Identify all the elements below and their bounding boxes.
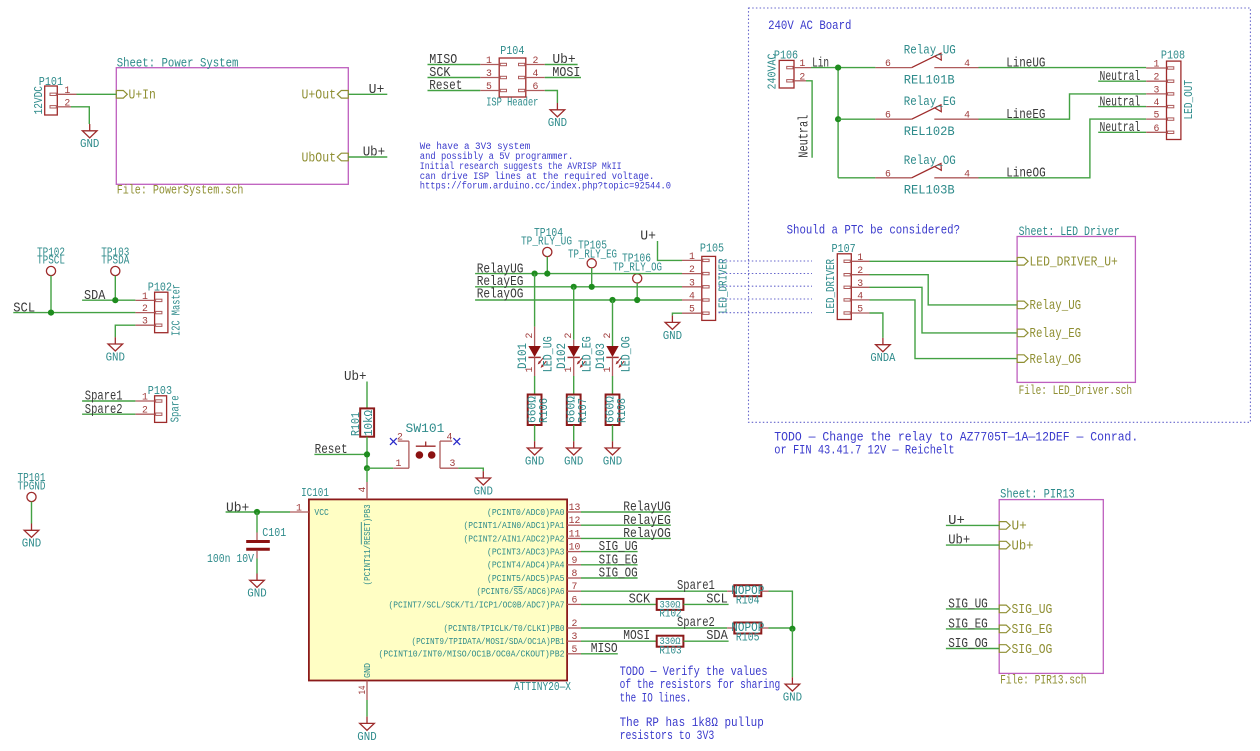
- svg-text:R105: R105: [736, 630, 760, 644]
- P103 pin 2: [135, 405, 154, 416]
- svg-text:2: 2: [524, 333, 535, 339]
- wire TP106 drop: [636, 283, 638, 300]
- wire Neutral vertical wire: [806, 81, 812, 158]
- svg-text:240VAC: 240VAC: [766, 53, 779, 89]
- wire IC pin14 to GND: [366, 700, 368, 717]
- svg-text:Neutral: Neutral: [1100, 94, 1141, 110]
- IC101 pin 12 PA1: [464, 515, 582, 531]
- diode D101: [528, 327, 546, 376]
- P105 reference: [700, 242, 724, 255]
- sheet Power System: [116, 68, 348, 185]
- svg-text:D102: D102: [555, 343, 569, 369]
- svg-text:GNDA: GNDA: [870, 352, 895, 365]
- label LineOG: [1006, 166, 1045, 182]
- ground GND below IC101: [357, 717, 376, 744]
- svg-text:Relay_UG: Relay_UG: [1030, 298, 1082, 314]
- sheet pin U+ PIR13: [999, 520, 1027, 535]
- REL101B reference: [904, 73, 955, 88]
- svg-text:(PCINT9/TPIDATA/MOSI/SDA/OC1A): (PCINT9/TPIDATA/MOSI/SDA/OC1A)PB1: [412, 636, 565, 647]
- wire UbOut to Ub+ label: [348, 156, 387, 158]
- text Should a PTC be considered?: [787, 224, 960, 238]
- label RelayOG at P105: [477, 287, 524, 303]
- P104 pin 3: [480, 68, 499, 79]
- svg-text:IC101: IC101: [301, 487, 329, 500]
- text TODO verify resistors: [620, 665, 781, 706]
- svg-text:resistors to 3V3: resistors to 3V3: [620, 729, 715, 743]
- svg-text:6: 6: [885, 58, 891, 69]
- svg-text:D103: D103: [594, 343, 608, 369]
- R105 value NOPOP: [731, 621, 764, 635]
- R106 value 660: [525, 396, 539, 423]
- sheet pin U+In: [116, 89, 156, 104]
- connector P103: [155, 396, 167, 423]
- svg-text:10: 10: [569, 542, 581, 553]
- label LineUG: [1006, 55, 1045, 71]
- svg-text:Ub+: Ub+: [226, 500, 249, 516]
- relay REL102B: [875, 105, 978, 121]
- wire P101 pin1 to U+In: [77, 93, 117, 95]
- sheet file PowerSystem.sch: [117, 183, 244, 197]
- P101 value 12VDC: [33, 86, 46, 115]
- D101 pin 1: [524, 367, 535, 373]
- REL102B value Relay_EG: [904, 94, 956, 109]
- wire Spare2 wire: [581, 627, 727, 629]
- svg-text:(PCINT11/RESET)PB3: (PCINT11/RESET)PB3: [362, 504, 373, 585]
- svg-text:TP_RLY_OG: TP_RLY_OG: [613, 261, 662, 274]
- svg-text:GND: GND: [247, 588, 266, 601]
- P106 value 240VAC: [766, 53, 779, 89]
- svg-text:GND: GND: [564, 455, 583, 468]
- ground GNDA below P107: [870, 338, 895, 365]
- svg-text:2: 2: [142, 303, 148, 314]
- ground GND below R107: [564, 441, 583, 468]
- svg-text:R107: R107: [576, 398, 590, 423]
- label SIG_OG at IC: [599, 567, 638, 582]
- svg-text:MISO: MISO: [591, 642, 618, 657]
- wire TP105 drop: [591, 268, 593, 287]
- svg-text:1: 1: [799, 58, 805, 69]
- R105 reference: [736, 630, 760, 644]
- testpoint TP104: [521, 227, 572, 256]
- IC101 pin 14 bottom: [357, 681, 368, 701]
- svg-text:SIG_OG: SIG_OG: [948, 637, 988, 652]
- svg-text:Relay_EG: Relay_EG: [904, 94, 956, 109]
- P102 pin 2: [135, 303, 154, 314]
- junction node reset label: [364, 451, 370, 457]
- label RelayEG at P105: [477, 274, 524, 290]
- IC101 pin 9 PA4: [487, 555, 581, 571]
- resistor R108: [606, 395, 620, 426]
- wire D103 anode wire: [612, 300, 614, 353]
- ground GND below P101: [80, 124, 99, 151]
- svg-text:(PCINT10/INT0/MISO/OC1B/OC0A/C: (PCINT10/INT0/MISO/OC1B/OC0A/CKOUT)PB2: [379, 649, 565, 660]
- C101 value 100n 10V: [207, 553, 254, 566]
- ground GND below TP101: [22, 524, 41, 551]
- label RelayOG at IC: [623, 526, 671, 542]
- svg-text:SCL: SCL: [13, 301, 35, 316]
- svg-text:https://forum.arduino.cc/index: https://forum.arduino.cc/index.php?topic…: [420, 181, 671, 192]
- junction node reset sw: [364, 465, 370, 471]
- diode D103: [606, 346, 624, 376]
- svg-text:P105: P105: [700, 242, 724, 255]
- svg-text:Neutral: Neutral: [1100, 69, 1141, 85]
- svg-text:2: 2: [572, 618, 578, 629]
- P108 value LED_OUT: [1183, 80, 1196, 120]
- label SCK: [429, 66, 451, 81]
- wire P107 pin3 to Relay_EG: [870, 287, 1018, 333]
- svg-text:13: 13: [569, 502, 581, 513]
- sheet pin UbOut: [302, 150, 349, 166]
- junction node D102 tap: [571, 284, 577, 290]
- sheet file PIR13.sch: [1000, 674, 1086, 688]
- diode D102: [568, 340, 586, 376]
- wire Ub+ wire at P104: [545, 64, 578, 66]
- label MOSI at IC: [623, 629, 650, 644]
- svg-text:or FIN 43.41.7 12V — Reichelt: or FIN 43.41.7 12V — Reichelt: [774, 443, 954, 457]
- R103 value 330: [660, 636, 681, 647]
- wire reset node to IC pin4: [366, 468, 368, 482]
- SW101 pin 2: [397, 432, 409, 443]
- svg-text:TPGND: TPGND: [18, 480, 46, 493]
- svg-text:TODO — Verify the values: TODO — Verify the values: [620, 665, 768, 679]
- svg-text:of the resistors for sharing: of the resistors for sharing: [620, 678, 781, 692]
- svg-text:12VDC: 12VDC: [33, 86, 46, 115]
- svg-text:Relay_OG: Relay_OG: [904, 153, 956, 168]
- svg-text:3: 3: [857, 278, 863, 289]
- ground GND below SW101: [474, 471, 493, 498]
- wire C101 to GND wire: [256, 559, 258, 574]
- wire Reset wire: [314, 453, 367, 455]
- svg-text:Reset: Reset: [429, 79, 462, 94]
- resistor R103: [657, 636, 684, 647]
- IC101 pin 11 PA2: [464, 528, 582, 544]
- wire Lin wire: [811, 67, 875, 69]
- note 3V3 system: [420, 141, 671, 191]
- no-connect X on SW101 pin 2: [390, 438, 397, 445]
- svg-text:(PCINT0/ADC0)PA0: (PCINT0/ADC0)PA0: [487, 507, 565, 518]
- svg-text:(PCINT4/ADC4)PA4: (PCINT4/ADC4)PA4: [487, 560, 565, 571]
- D103 pin 2: [602, 333, 613, 339]
- svg-text:5: 5: [1153, 110, 1159, 121]
- label U+ at P105: [640, 230, 656, 245]
- wire SIG_OG wire at IC: [581, 577, 638, 579]
- wire R108 to GND wire: [612, 425, 614, 441]
- sheet pin Relay_OG: [1017, 352, 1081, 368]
- svg-text:3: 3: [1153, 84, 1159, 95]
- P107 value LED_DRIVER: [825, 259, 838, 314]
- resistor R101: [360, 408, 374, 436]
- overline on SS of PA6: [514, 586, 523, 588]
- svg-text:Ub+: Ub+: [363, 145, 386, 161]
- svg-text:GND: GND: [548, 117, 567, 130]
- svg-text:4: 4: [857, 290, 863, 301]
- svg-text:1: 1: [689, 251, 695, 262]
- REL103B reference: [904, 183, 955, 198]
- svg-text:(PCINT2/AIN1/ADC2)PA2: (PCINT2/AIN1/ADC2)PA2: [464, 533, 565, 544]
- svg-text:U+Out: U+Out: [302, 89, 337, 104]
- svg-text:4: 4: [689, 291, 695, 302]
- wire LineEG wire: [979, 94, 1147, 119]
- connector P106: [779, 60, 794, 88]
- P108 pin 5: [1146, 110, 1166, 121]
- label SIG_EG at PIR13: [948, 618, 988, 633]
- svg-text:2: 2: [857, 265, 863, 276]
- label SCL at IC: [706, 592, 728, 607]
- D103 value LED_OG: [619, 336, 633, 372]
- svg-text:(PCINT8/TPICLK/T0/CLKI)PB0: (PCINT8/TPICLK/T0/CLKI)PB0: [444, 623, 565, 634]
- P105 pin 3: [682, 277, 702, 288]
- testpoint TP102: [37, 246, 65, 275]
- svg-text:3: 3: [142, 316, 148, 327]
- svg-text:100n 10V: 100n 10V: [207, 553, 254, 566]
- sheet PIR13: [999, 500, 1103, 674]
- svg-text:SIG_EG: SIG_EG: [1012, 623, 1053, 638]
- wire TP101 to GND: [31, 502, 33, 524]
- wire Neutral wire pin2: [1098, 80, 1146, 82]
- svg-text:2: 2: [397, 432, 403, 443]
- SW101 pin 4: [440, 432, 453, 443]
- svg-text:D101: D101: [516, 343, 530, 369]
- svg-text:5: 5: [486, 81, 492, 92]
- sheet name PIR13: [1000, 488, 1075, 502]
- P108 pin 1: [1146, 59, 1166, 70]
- svg-text:2: 2: [563, 333, 574, 339]
- connector P102: [155, 292, 168, 333]
- P102 pin 1: [135, 291, 154, 302]
- svg-text:Sheet: PIR13: Sheet: PIR13: [1000, 488, 1075, 502]
- label Neutral pin6: [1100, 120, 1141, 136]
- label Ub+ above R101: [344, 369, 367, 385]
- svg-text:Spare2: Spare2: [85, 403, 123, 418]
- label SDA at IC: [706, 629, 728, 644]
- svg-text:1: 1: [142, 291, 148, 302]
- svg-text:SCL: SCL: [706, 592, 728, 607]
- label Reset: [315, 443, 348, 458]
- wire RelayEG wire at IC: [581, 524, 671, 526]
- junction node D101 tap: [532, 271, 538, 277]
- svg-text:14: 14: [357, 685, 368, 694]
- wire row3 wire to relay3: [838, 177, 875, 179]
- svg-text:the IO lines.: the IO lines.: [620, 691, 692, 705]
- wire P107 pin4 to Relay_OG: [870, 300, 1018, 359]
- IC101 reference: [301, 487, 329, 500]
- D102 pin 2: [563, 333, 574, 339]
- P103 pin 1: [135, 392, 154, 403]
- svg-text:Neutral: Neutral: [1100, 120, 1141, 136]
- svg-text:SIG_EG: SIG_EG: [948, 618, 988, 633]
- P104 pin 1: [480, 55, 499, 66]
- R102 value 330: [660, 599, 681, 610]
- P105 pin 4: [682, 291, 702, 302]
- P104 pin 2: [526, 55, 545, 66]
- P108 pin 4: [1146, 97, 1166, 108]
- P101 pin 2: [57, 97, 71, 108]
- wire relay bus down: [837, 68, 839, 178]
- text 240V AC Board: [768, 18, 851, 33]
- D102 pin 1: [563, 367, 574, 373]
- svg-text:LED_DRIVER_U+: LED_DRIVER_U+: [1030, 256, 1118, 271]
- svg-text:R104: R104: [736, 594, 760, 608]
- svg-text:P104: P104: [500, 45, 524, 58]
- junction node SDA-TP103: [112, 297, 118, 303]
- P106 reference: [774, 50, 798, 63]
- ground GND below R108: [603, 441, 622, 468]
- svg-text:SW101: SW101: [406, 421, 445, 436]
- text RP pullup: [620, 716, 764, 743]
- svg-text:GND: GND: [106, 351, 125, 364]
- svg-text:5: 5: [572, 644, 578, 655]
- label SIG_EG at IC: [599, 553, 638, 568]
- svg-text:LED_DRIVER: LED_DRIVER: [825, 259, 838, 314]
- svg-text:11: 11: [569, 528, 581, 539]
- P108 pin 3: [1146, 84, 1166, 95]
- svg-text:Reset: Reset: [315, 443, 348, 458]
- svg-text:MOSI: MOSI: [552, 66, 580, 81]
- svg-text:TPSCL: TPSCL: [37, 255, 65, 268]
- overline on RESET of PB3: [360, 522, 362, 545]
- wire Ub+ to R101: [366, 382, 368, 409]
- svg-text:1: 1: [1153, 59, 1159, 70]
- svg-text:Spare: Spare: [169, 395, 182, 422]
- svg-text:RelayOG: RelayOG: [477, 287, 524, 303]
- R101 value 10k: [362, 410, 376, 436]
- D101 reference: [516, 343, 530, 369]
- svg-text:6: 6: [572, 594, 578, 605]
- wire SCL wire: [13, 312, 135, 314]
- svg-text:Neutral: Neutral: [796, 115, 812, 158]
- svg-text:TP_RLY_EG: TP_RLY_EG: [568, 249, 617, 262]
- svg-text:LED_UG: LED_UG: [542, 336, 556, 372]
- svg-text:10kΩ: 10kΩ: [362, 410, 376, 436]
- svg-text:4: 4: [964, 110, 970, 121]
- R103 reference: [659, 646, 681, 658]
- wire P105 pin5 to GND: [672, 313, 682, 315]
- P107 pin 1: [851, 252, 869, 263]
- svg-text:REL102B: REL102B: [904, 124, 955, 139]
- SW101 pin 1: [393, 441, 409, 469]
- svg-text:3: 3: [572, 631, 578, 642]
- svg-text:VCC: VCC: [314, 507, 329, 518]
- svg-text:8: 8: [572, 568, 578, 579]
- svg-text:P107: P107: [832, 243, 856, 256]
- svg-text:GND: GND: [663, 330, 682, 343]
- wire Spare1 wire: [581, 590, 727, 592]
- wire sw pin3 to GND: [458, 468, 483, 471]
- svg-text:U+: U+: [948, 514, 965, 529]
- D103 pin 1: [602, 367, 613, 373]
- svg-text:Ub+: Ub+: [948, 533, 970, 549]
- svg-text:LineEG: LineEG: [1006, 107, 1045, 123]
- P106 pin 2: [794, 71, 806, 82]
- wire P107 pin5 to GNDA: [870, 313, 883, 338]
- svg-text:3: 3: [689, 277, 695, 288]
- svg-text:6: 6: [1153, 123, 1159, 134]
- wire MISO wire at IC: [581, 653, 618, 655]
- junction node TP106 tap: [634, 297, 640, 303]
- P101 reference: [39, 76, 63, 89]
- svg-text:3: 3: [486, 68, 492, 79]
- P108 pin 6: [1146, 123, 1166, 134]
- R108 reference: [615, 398, 629, 423]
- svg-text:5: 5: [689, 304, 695, 315]
- svg-text:(PCINT7/SCL/SCK/T1/ICP1/OC0B/A: (PCINT7/SCL/SCK/T1/ICP1/OC0B/ADC7)PA7: [389, 599, 565, 610]
- svg-text:5: 5: [857, 304, 863, 315]
- svg-text:SDA: SDA: [84, 289, 106, 304]
- wire Neutral wire pin6: [1098, 131, 1146, 133]
- wire SIG_UG wire at PIR13: [946, 608, 999, 610]
- svg-text:240V AC Board: 240V AC Board: [768, 18, 851, 33]
- svg-text:I2C Master: I2C Master: [171, 284, 184, 336]
- testpoint TP101: [18, 472, 46, 502]
- SW101 pin 3: [440, 441, 458, 469]
- ground GND below P105: [663, 316, 682, 343]
- wire D101 cathode wire: [534, 376, 536, 395]
- P101 pin 1: [57, 85, 76, 96]
- svg-text:TP_RLY_UG: TP_RLY_UG: [521, 236, 572, 249]
- wire P107 pin2 to Relay_UG: [870, 275, 1018, 305]
- IC101 pin 7 PA6: [477, 581, 582, 597]
- wire R107 to GND wire: [573, 425, 575, 441]
- IC101 pin name VCC: [314, 507, 329, 518]
- P102 reference: [148, 282, 172, 295]
- R104 value NOPOP: [731, 584, 764, 598]
- wire D102 cathode wire: [573, 376, 575, 395]
- svg-text:LED_OUT: LED_OUT: [1183, 80, 1196, 120]
- sheet pin U+Out: [302, 89, 349, 104]
- D103 reference: [594, 343, 608, 369]
- label SIG_OG at PIR13: [948, 637, 988, 652]
- wire D103 cathode wire: [612, 376, 614, 395]
- resistor R106: [528, 395, 542, 426]
- P103 reference: [148, 385, 172, 398]
- sheet pin SIG_EG PIR13: [999, 623, 1052, 638]
- label Neutral pin2: [1100, 69, 1141, 85]
- ground GND below R106: [525, 441, 544, 468]
- svg-text:(PCINT3/ADC3)PA3: (PCINT3/ADC3)PA3: [487, 547, 565, 558]
- text TODO change relay: [774, 430, 1138, 457]
- sheet name LED Driver: [1019, 225, 1120, 239]
- svg-text:2: 2: [64, 97, 70, 108]
- svg-text:(PCINT5/ADC5)PA5: (PCINT5/ADC5)PA5: [487, 573, 565, 584]
- IC101 pin 5 PB2: [379, 644, 582, 660]
- svg-text:ISP Header: ISP Header: [486, 96, 538, 109]
- 240V AC Board dotted frame: [749, 8, 1251, 422]
- IC101 pin name PB3 vertical: [362, 504, 373, 585]
- svg-text:2: 2: [689, 264, 695, 275]
- wire Ub+ to VCC wire: [226, 511, 290, 513]
- P107 reference: [832, 243, 856, 256]
- sheet pin SIG_OG PIR13: [999, 643, 1052, 658]
- svg-text:(PCINT6/SS/ADC6)PA6: (PCINT6/SS/ADC6)PA6: [477, 586, 565, 597]
- testpoint TP106: [613, 253, 662, 283]
- svg-text:The RP has 1k8Ω pullup: The RP has 1k8Ω pullup: [620, 716, 764, 730]
- D102 reference: [555, 343, 569, 369]
- wire R105 to gnd bus: [769, 627, 793, 629]
- label MISO: [429, 53, 457, 68]
- P105 pin 2: [682, 264, 702, 275]
- IC101 pin 1 VCC: [290, 503, 309, 514]
- label U+ at PIR13: [948, 514, 965, 529]
- wire D101 anode wire: [534, 274, 536, 327]
- svg-text:4: 4: [447, 432, 453, 443]
- svg-text:Lin: Lin: [812, 55, 829, 71]
- label RelayEG at IC: [623, 513, 671, 529]
- relay REL103B: [875, 163, 978, 179]
- svg-text:File: LED_Driver.sch: File: LED_Driver.sch: [1019, 384, 1133, 398]
- svg-text:3: 3: [450, 458, 456, 469]
- switch SW101: [406, 421, 445, 436]
- IC101 pin 2 PB0: [444, 618, 582, 634]
